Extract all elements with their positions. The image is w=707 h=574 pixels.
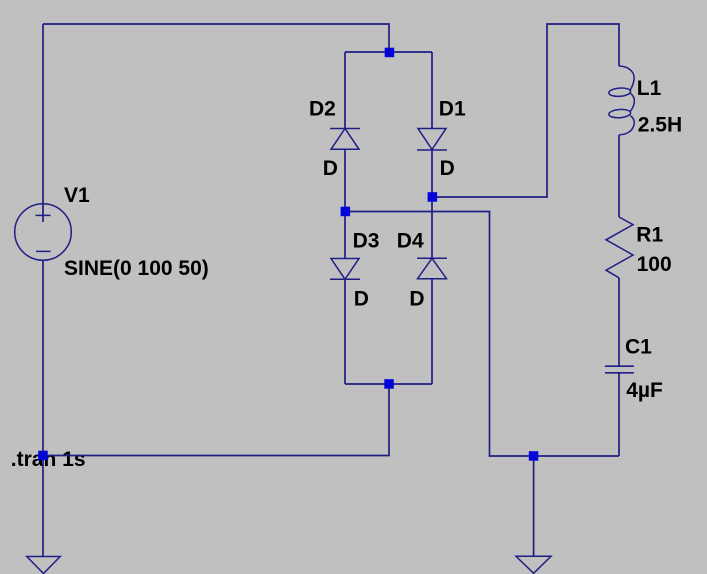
wire V1 bottom vertical (42, 260, 44, 557)
ground right (516, 556, 551, 573)
wire output plus to right column (432, 24, 619, 197)
svg-text:SINE(0 100 50): SINE(0 100 50) (64, 257, 209, 280)
diode D2 (330, 129, 360, 150)
wire right ground vertical (533, 456, 535, 556)
node junction right ground (529, 451, 539, 461)
wire V1 top vertical (42, 24, 44, 222)
svg-text:2.5H: 2.5H (638, 113, 682, 136)
node junction V1 return (38, 451, 48, 461)
voltage source V1 (15, 204, 72, 261)
svg-text:D: D (323, 157, 338, 180)
node junction bridge bottom (384, 379, 394, 389)
svg-text:R1: R1 (636, 223, 663, 246)
wire bridge top to D1 (431, 52, 433, 129)
wire D3 to bridge bottom (344, 279, 346, 384)
svg-text:.tran 1s: .tran 1s (11, 448, 86, 471)
svg-text:D4: D4 (397, 230, 424, 253)
node junction output plus (428, 192, 438, 202)
inductor L1 (609, 66, 635, 135)
wire D2 anode to D3 (344, 149, 346, 258)
ground left (27, 557, 60, 574)
wire bridge bottom to AC return (43, 384, 389, 456)
wire D4 to bridge bottom (431, 279, 433, 384)
diode D1 (417, 129, 447, 151)
wire top from V1 to bridge top (43, 24, 389, 52)
wire D1 cathode to D4 (431, 150, 433, 258)
svg-text:D: D (354, 287, 369, 310)
svg-text:D: D (409, 287, 424, 310)
node junction bridge top (385, 48, 395, 58)
svg-text:D2: D2 (309, 97, 336, 120)
resistor R1 (606, 217, 633, 278)
wire output minus to bottom right (345, 212, 619, 457)
wire bridge top horizontal (345, 51, 432, 53)
svg-text:D: D (440, 157, 455, 180)
diode D3 (330, 259, 360, 280)
svg-text:C1: C1 (625, 335, 652, 358)
svg-text:100: 100 (637, 253, 672, 276)
capacitor C1 (605, 366, 634, 373)
svg-text:D3: D3 (353, 230, 380, 253)
wire R1 to C1 (618, 278, 620, 366)
wire bridge top to D2 (344, 52, 346, 129)
svg-text:L1: L1 (637, 77, 662, 100)
wire bridge bottom horizontal (345, 383, 432, 385)
svg-text:D1: D1 (439, 97, 466, 120)
svg-text:4µF: 4µF (626, 379, 663, 402)
wire C1 to bottom (618, 373, 620, 456)
svg-text:V1: V1 (64, 184, 90, 207)
wire L1 to R1 (618, 135, 620, 217)
diode D4 (417, 258, 447, 278)
node junction output minus (341, 207, 351, 217)
